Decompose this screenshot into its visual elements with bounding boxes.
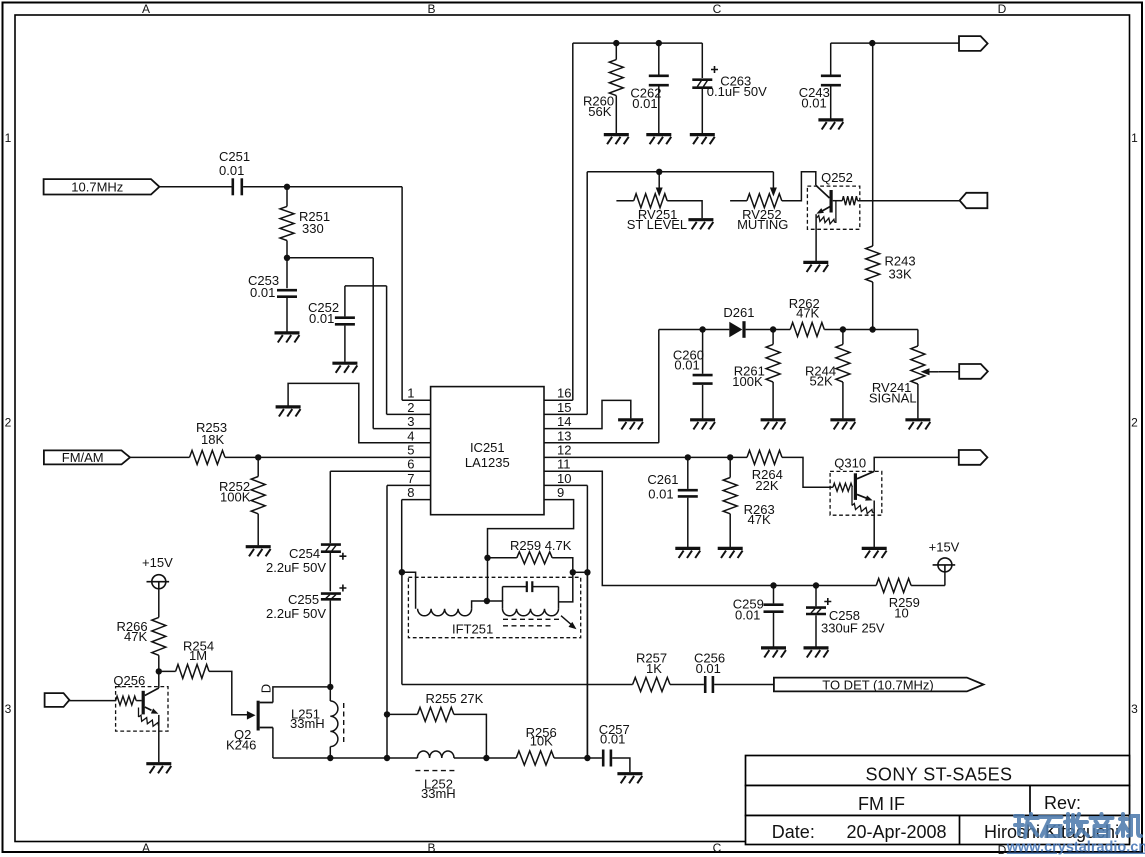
node R263 top — [727, 454, 733, 460]
wire junction to pin3 riser — [287, 257, 373, 259]
capacitor C256 — [694, 651, 725, 694]
wire C263 top — [701, 43, 703, 78]
wire to pin 3 — [373, 428, 430, 430]
wire C255 down to drain rail — [329, 601, 331, 687]
svg-text:0.01: 0.01 — [309, 311, 334, 326]
wire to pin 1 — [402, 399, 431, 401]
wire pin10 line lower half — [586, 572, 588, 758]
ground C263 — [690, 135, 715, 145]
svg-text:+15V: +15V — [929, 540, 960, 555]
wire C243 rail to connector — [831, 42, 959, 44]
svg-text:C254: C254 — [289, 546, 320, 561]
wiper arrow RV241 — [928, 371, 939, 373]
wire C259 top lead — [773, 586, 775, 604]
connector input Q256 — [45, 693, 70, 707]
svg-text:0.1uF 50V: 0.1uF 50V — [707, 84, 767, 99]
wire Q256 emitter to ground — [158, 715, 160, 762]
wire pin 4 to ground bracket — [288, 383, 431, 442]
svg-text:0.01: 0.01 — [696, 661, 721, 676]
svg-text:47K: 47K — [124, 629, 147, 644]
svg-text:10K: 10K — [530, 734, 553, 749]
resistor R261 100K — [732, 330, 780, 419]
ground pin 4 — [276, 407, 301, 417]
capacitor C253 — [248, 273, 297, 300]
svg-text:FM IF: FM IF — [858, 794, 905, 814]
resistor R253 18K — [130, 420, 256, 464]
ground C260 — [690, 420, 715, 430]
svg-text:ST LEVEL: ST LEVEL — [627, 217, 687, 232]
svg-text:15: 15 — [557, 400, 571, 415]
capacitor C263 0.1uF — [692, 66, 767, 99]
ground C258 — [804, 648, 829, 658]
wire Q310 collector to connector — [874, 457, 959, 471]
wire rail to R243 — [872, 43, 874, 246]
node R243 top — [869, 40, 875, 46]
IC U251 LA1235 — [407, 386, 571, 515]
svg-text:7: 7 — [407, 471, 414, 486]
svg-text:0.01: 0.01 — [801, 95, 826, 110]
svg-text:2: 2 — [5, 416, 12, 430]
wire Q2 source down — [272, 728, 274, 759]
wire input to Q256 — [69, 700, 115, 702]
resistor R262 47K — [773, 296, 843, 337]
ground Q256 — [146, 764, 171, 774]
svg-text:SONY ST-SA5ES: SONY ST-SA5ES — [866, 765, 1013, 785]
wire R254 to Q2 gate — [209, 671, 248, 714]
wire C262 to ground — [658, 87, 660, 134]
svg-text:9: 9 — [557, 485, 564, 500]
connector 10.7MHz input — [44, 179, 160, 194]
node R255 bottom — [483, 755, 489, 761]
wiper arrow RV251 — [658, 172, 660, 189]
wire C253 to ground — [286, 298, 288, 332]
capacitor C243 — [799, 76, 841, 111]
svg-text:10: 10 — [894, 606, 908, 621]
transistor Q2 K246 — [226, 684, 274, 752]
transformer IFT251 — [402, 572, 581, 638]
svg-text:3: 3 — [407, 414, 414, 429]
svg-text:20-Apr-2008: 20-Apr-2008 — [846, 822, 946, 842]
wire C263 to ground — [701, 89, 703, 133]
wire pin8 down to IFT node — [401, 500, 403, 573]
wire rail L252 to R256 — [454, 757, 516, 759]
capacitor C251 — [219, 149, 250, 195]
wire to R257 — [402, 684, 633, 686]
wire pin8 node down to R257 row — [401, 572, 403, 684]
+15V supply left — [142, 555, 173, 589]
svg-text:14: 14 — [557, 414, 571, 429]
wire C262 top — [658, 43, 660, 74]
capacitor C254 2.2uF — [266, 545, 346, 575]
wire pin 10 — [544, 484, 587, 486]
diode D261 — [723, 305, 754, 338]
wire pin 6 to C254 — [330, 470, 430, 472]
capacitor C258 330uF — [806, 598, 885, 636]
resistor R251 330 — [280, 188, 330, 256]
node R259/IFT top — [484, 555, 490, 561]
node C262 top — [656, 40, 662, 46]
ground RV241 — [905, 420, 930, 430]
svg-text:33mH: 33mH — [290, 716, 325, 731]
svg-text:B: B — [427, 841, 435, 855]
svg-text:1: 1 — [1131, 131, 1138, 145]
svg-text:0.01: 0.01 — [674, 358, 699, 373]
svg-text:11: 11 — [557, 457, 571, 472]
wire pin 16 — [544, 399, 573, 401]
wire C260 to ground — [702, 385, 704, 418]
connector output Q310 row — [959, 450, 988, 465]
svg-text:0.01: 0.01 — [735, 608, 760, 623]
+15V supply right — [929, 540, 960, 572]
resistor R254 1M — [159, 639, 214, 679]
resistor RV252 MUTING — [730, 194, 788, 232]
wiper arrow RV252 — [772, 172, 774, 189]
resistor R255 27K — [387, 691, 484, 721]
transistor Q256 — [113, 673, 168, 731]
capacitor C255 2.2uF — [266, 585, 346, 622]
svg-text:C: C — [713, 841, 722, 855]
wire pin1 riser — [401, 187, 403, 400]
connector output RV241 row — [959, 364, 988, 379]
capacitor C260 — [673, 348, 713, 384]
wire pin 13 — [544, 442, 659, 444]
wire Q310 emitter to ground — [873, 501, 875, 548]
connector output top right — [959, 36, 988, 51]
wire C252 to ground — [344, 326, 346, 362]
svg-text:6: 6 — [407, 457, 414, 472]
transistor Q310 — [830, 456, 882, 516]
wire C243 to ground — [830, 87, 832, 119]
svg-text:1: 1 — [5, 131, 12, 145]
svg-text:2.2uF 50V: 2.2uF 50V — [266, 560, 326, 575]
svg-text:TO DET (10.7MHz): TO DET (10.7MHz) — [822, 677, 933, 692]
svg-text:K246: K246 — [226, 737, 256, 752]
ground R263 — [718, 548, 743, 558]
node RV251 wiper — [656, 169, 662, 175]
wire to pin 5 — [258, 456, 430, 458]
wire down to C254 — [329, 471, 331, 543]
svg-text:Q256: Q256 — [113, 673, 145, 688]
wire detector row left — [659, 329, 730, 331]
wire pin 11 to supply rail — [544, 471, 876, 585]
svg-text:18K: 18K — [201, 432, 224, 447]
ground R261 — [761, 420, 786, 430]
ground C259 — [761, 648, 786, 658]
svg-text:330uF 25V: 330uF 25V — [821, 621, 885, 636]
wire C243 top — [830, 43, 832, 74]
node IFT secondary top — [570, 569, 576, 575]
svg-text:D: D — [998, 2, 1007, 16]
wire 10.7MHz to C251 — [159, 186, 231, 188]
svg-text:12: 12 — [557, 443, 571, 458]
wire pin15 riser — [586, 172, 588, 415]
wire pin 9 bracket — [488, 500, 574, 558]
wire pin 15 — [544, 413, 587, 415]
svg-text:C251: C251 — [219, 149, 250, 164]
svg-text:IFT251: IFT251 — [452, 622, 493, 637]
wire C257 to ground — [612, 758, 630, 772]
node R261 top — [770, 326, 776, 332]
svg-text:22K: 22K — [755, 478, 778, 493]
wire pin3 riser — [372, 258, 374, 429]
ground C257 — [617, 774, 642, 784]
ground Q252 — [803, 262, 828, 272]
ground R244 — [830, 420, 855, 430]
resistor R264 22K — [730, 450, 783, 492]
ground C262 — [646, 135, 671, 145]
svg-text:47K: 47K — [796, 305, 819, 320]
svg-text:56K: 56K — [588, 104, 611, 119]
ground R252 — [246, 547, 271, 557]
resistor R252 100K — [219, 459, 265, 545]
wire Q252 emitter to ground — [815, 214, 817, 261]
watermark crystalradio.cn logo — [1015, 814, 1141, 837]
svg-text:Q310: Q310 — [834, 456, 866, 471]
wire output rail left — [273, 757, 418, 759]
resistor R260 56K — [583, 43, 623, 133]
svg-text:0.01: 0.01 — [648, 487, 673, 502]
wire to pin 2 — [387, 413, 431, 415]
ground C253 — [275, 333, 300, 343]
wire Q2 drain — [273, 687, 330, 703]
node R251/C253 junction — [284, 255, 290, 261]
wire C258 top lead — [815, 586, 817, 607]
resistor R259 10 — [876, 579, 945, 621]
wire pin16 riser to top rail — [572, 43, 574, 400]
svg-text:5: 5 — [407, 443, 414, 458]
node IFT centre tap — [484, 598, 490, 604]
svg-text:R259 4.7K: R259 4.7K — [510, 538, 572, 553]
node C260/D261 — [699, 326, 705, 332]
node C259 top — [770, 582, 776, 588]
svg-text:0.01: 0.01 — [219, 163, 244, 178]
node pin10 line — [584, 569, 590, 575]
wire C256 to TO DET — [714, 684, 774, 686]
resistor R259 4.7K — [488, 538, 572, 564]
svg-text:D: D — [259, 684, 274, 693]
wire C252 to pin2 riser — [345, 285, 387, 287]
svg-text:2.2uF 50V: 2.2uF 50V — [266, 606, 326, 621]
node R244 top — [840, 326, 846, 332]
wire R259 to node — [552, 558, 573, 573]
svg-text:www.crystalradio.cn: www.crystalradio.cn — [1006, 840, 1145, 856]
svg-text:1K: 1K — [646, 661, 662, 676]
ground C252 — [332, 363, 357, 373]
node R260 top — [613, 40, 619, 46]
wire D261 to R262 — [746, 329, 774, 331]
wire RV241 wiper to connector — [939, 371, 960, 373]
svg-text:B: B — [427, 2, 435, 16]
wire C254 to C255 — [329, 553, 331, 591]
ground R260 — [604, 135, 629, 145]
wire Q256 collector — [158, 671, 160, 688]
svg-text:33K: 33K — [889, 267, 912, 282]
resistor R266 47K — [117, 589, 166, 672]
node pin8/IFT — [399, 569, 405, 575]
ground Q310 — [862, 548, 887, 558]
wire Q252 base to connector — [858, 200, 960, 202]
wire to +15V — [944, 572, 946, 586]
svg-text:8: 8 — [407, 485, 414, 500]
wire C261 top lead — [687, 457, 689, 489]
node R266/R254/Q256 — [156, 668, 162, 674]
svg-text:16: 16 — [557, 386, 571, 401]
wire RV row — [587, 171, 773, 173]
connector output Q252 row — [960, 193, 988, 208]
svg-text:52K: 52K — [810, 373, 833, 388]
wire C251 to pin1 riser — [243, 186, 402, 188]
wire C259 to ground — [773, 613, 775, 647]
resistor R263 47K — [723, 457, 774, 547]
svg-text:3: 3 — [1131, 702, 1138, 716]
inductor L251 33mH — [290, 687, 344, 758]
svg-text:IC251: IC251 — [470, 440, 505, 455]
capacitor C257 — [599, 722, 630, 767]
resistor R244 52K — [805, 330, 850, 419]
capacitor C261 — [647, 472, 697, 502]
wire C252 top — [344, 286, 346, 317]
wire C260 top — [702, 330, 704, 374]
capacitor C259 — [733, 597, 784, 623]
svg-text:1: 1 — [407, 386, 414, 401]
svg-text:3: 3 — [5, 702, 12, 716]
wire to pin 7 — [387, 484, 431, 486]
wire top rail — [573, 42, 703, 44]
svg-text:FM/AM: FM/AM — [62, 450, 104, 465]
svg-text:2: 2 — [1131, 416, 1138, 430]
node R243 bottom — [869, 326, 875, 332]
wire pin10 down to output rail — [586, 485, 588, 758]
wire pin 12 row — [544, 456, 688, 458]
svg-text:C255: C255 — [288, 592, 319, 607]
ground C243 — [818, 120, 843, 130]
svg-text:A: A — [142, 841, 150, 855]
wire C258 to ground — [815, 615, 817, 646]
wire C261 to R263 node — [688, 456, 730, 458]
connector FM/AM input — [44, 450, 130, 465]
svg-text:0.01: 0.01 — [250, 285, 275, 300]
wire rail to C257 — [587, 757, 602, 759]
ground C261 — [675, 548, 700, 558]
svg-text:MUTING: MUTING — [737, 217, 788, 232]
ground RV251 — [688, 220, 713, 230]
inductor L252 33mH — [415, 751, 455, 801]
resistor R243 33K — [866, 246, 916, 328]
node C261 top — [685, 454, 691, 460]
svg-text:Q252: Q252 — [821, 170, 853, 185]
wire to pin 8 — [402, 499, 431, 501]
node C251/R251 junction — [284, 184, 290, 190]
svg-text:10: 10 — [557, 471, 571, 486]
svg-text:R255 27K: R255 27K — [426, 691, 484, 706]
node R255 left — [384, 711, 390, 717]
svg-text:C: C — [713, 2, 722, 16]
svg-text:100K: 100K — [220, 490, 251, 505]
wire to IFT centre tap — [487, 558, 489, 601]
node Q2 drain / L251 — [327, 684, 333, 690]
wire detector row right — [843, 329, 918, 331]
svg-text:C261: C261 — [647, 472, 678, 487]
wire pin 14 to ground — [544, 400, 631, 428]
ground pin 14 — [618, 420, 643, 430]
resistor RV241 SIGNAL — [869, 330, 925, 419]
svg-text:33mH: 33mH — [421, 786, 456, 801]
svg-text:Rev:: Rev: — [1044, 793, 1081, 813]
wire C261 to ground — [687, 498, 689, 547]
svg-text:2: 2 — [407, 400, 414, 415]
svg-text:330: 330 — [302, 221, 324, 236]
resistor R257 1K — [633, 651, 704, 692]
wire node link — [573, 571, 588, 573]
node C258 top — [813, 582, 819, 588]
resistor RV251 ST LEVEL — [616, 194, 687, 232]
svg-text:10.7MHz: 10.7MHz — [71, 179, 123, 194]
svg-text:SIGNAL: SIGNAL — [869, 390, 917, 405]
svg-text:LA1235: LA1235 — [465, 455, 510, 470]
title block — [746, 756, 1130, 845]
svg-text:100K: 100K — [732, 374, 763, 389]
svg-text:A: A — [142, 2, 150, 16]
wire pin2 riser — [386, 286, 388, 415]
capacitor C252 — [308, 300, 355, 326]
svg-text:13: 13 — [557, 428, 571, 443]
svg-text:0.01: 0.01 — [600, 732, 625, 747]
wire pin7 riser down — [386, 485, 388, 758]
node pin10 bottom — [584, 755, 590, 761]
svg-text:1M: 1M — [189, 648, 207, 663]
wire R264 to Q310 base — [782, 457, 833, 487]
wire pin13 riser — [658, 330, 660, 443]
resistor R256 10K — [516, 725, 587, 765]
capacitor C262 — [630, 76, 668, 111]
wire junction to C253 — [286, 259, 288, 288]
transistor Q252 — [807, 170, 859, 229]
svg-text:4: 4 — [407, 428, 414, 443]
connector TO DET output — [774, 677, 984, 692]
svg-text:Date:: Date: — [772, 822, 815, 842]
wire RV251 to ground — [667, 201, 702, 219]
svg-text:+15V: +15V — [142, 555, 173, 570]
svg-text:47K: 47K — [748, 512, 771, 527]
node L251 bottom — [327, 755, 333, 761]
wire RV252 to Q252 collector — [782, 172, 816, 201]
node pin7 bottom — [384, 755, 390, 761]
svg-text:0.01: 0.01 — [632, 96, 657, 111]
node FM/AM junction — [255, 454, 261, 460]
wire R255 to rail — [454, 714, 487, 758]
svg-text:D261: D261 — [723, 305, 754, 320]
